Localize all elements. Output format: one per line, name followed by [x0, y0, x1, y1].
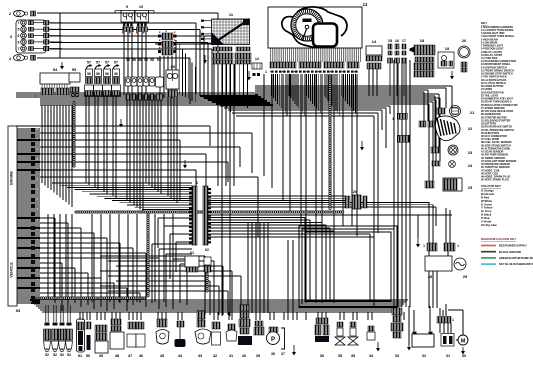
svg-text:40: 40 [242, 354, 246, 358]
svg-text:50: 50 [86, 354, 90, 358]
svg-text:52: 52 [60, 353, 64, 357]
svg-text:26: 26 [353, 189, 358, 194]
svg-text:SKY BLUE DASHBOARD SIGNAL: SKY BLUE DASHBOARD SIGNAL [499, 262, 533, 266]
svg-text:Sb Sky blue: Sb Sky blue [481, 223, 497, 227]
svg-text:5: 5 [18, 28, 20, 32]
svg-text:15: 15 [388, 39, 392, 43]
svg-text:RED POWER SUPPLY: RED POWER SUPPLY [499, 244, 527, 248]
svg-text:62: 62 [205, 248, 209, 252]
svg-text:35: 35 [338, 354, 342, 358]
svg-text:8: 8 [18, 40, 20, 44]
svg-text:56: 56 [114, 72, 118, 76]
svg-text:52: 52 [53, 353, 57, 357]
svg-text:58: 58 [150, 58, 154, 62]
svg-text:9: 9 [126, 5, 128, 9]
svg-text:58: 58 [126, 58, 130, 62]
svg-text:56: 56 [96, 72, 100, 76]
svg-text:10: 10 [139, 5, 143, 9]
svg-text:58: 58 [132, 58, 136, 62]
svg-text:33: 33 [395, 354, 399, 358]
svg-text:46: 46 [139, 354, 143, 358]
svg-text:37: 37 [281, 352, 285, 356]
svg-text:53: 53 [16, 308, 21, 313]
svg-text:1: 1 [392, 117, 394, 121]
svg-text:57: 57 [114, 61, 118, 65]
svg-text:1: 1 [452, 318, 454, 322]
svg-text:21: 21 [470, 110, 475, 115]
svg-text:57: 57 [87, 61, 91, 65]
svg-text:P: P [271, 337, 275, 343]
svg-text:55: 55 [72, 67, 77, 72]
svg-text:1: 1 [207, 55, 209, 59]
svg-text:30: 30 [462, 354, 466, 358]
svg-text:60: 60 [171, 64, 176, 69]
svg-text:58: 58 [144, 58, 148, 62]
svg-text:57: 57 [96, 61, 100, 65]
svg-text:47: 47 [128, 354, 132, 358]
svg-text:BLACK GROUND: BLACK GROUND [499, 250, 521, 254]
svg-text:50 VERT. SPARK PLUG: 50 VERT. SPARK PLUG [481, 178, 509, 182]
svg-text:52: 52 [67, 353, 71, 357]
svg-text:17: 17 [402, 39, 406, 43]
svg-text:6: 6 [18, 34, 20, 38]
svg-text:1: 1 [162, 94, 164, 98]
svg-text:38: 38 [271, 352, 275, 356]
svg-text:56: 56 [105, 72, 109, 76]
svg-text:25: 25 [468, 185, 473, 190]
svg-text:14: 14 [372, 39, 377, 44]
svg-text:COLOUR KEY: COLOUR KEY [481, 184, 501, 188]
svg-text:16: 16 [395, 39, 399, 43]
svg-text:VEHICLE: VEHICLE [10, 262, 14, 278]
svg-text:22: 22 [468, 126, 473, 131]
svg-text:M: M [461, 339, 466, 345]
svg-text:7: 7 [18, 47, 20, 51]
svg-text:12: 12 [255, 57, 259, 61]
svg-text:GREEN EARTH/FRAME SIGNAL: GREEN EARTH/FRAME SIGNAL [499, 256, 533, 260]
svg-text:7: 7 [18, 21, 20, 25]
svg-text:57: 57 [105, 61, 109, 65]
svg-text:54: 54 [53, 67, 58, 72]
svg-text:45: 45 [160, 354, 164, 358]
svg-text:13: 13 [363, 2, 368, 7]
svg-text:39: 39 [256, 354, 260, 358]
svg-text:42: 42 [213, 354, 217, 358]
svg-text:19: 19 [445, 46, 450, 51]
svg-text:24: 24 [468, 163, 473, 168]
svg-text:KEY: KEY [481, 21, 487, 25]
svg-text:59: 59 [157, 58, 161, 62]
svg-text:51: 51 [78, 354, 82, 358]
svg-text:52: 52 [45, 353, 49, 357]
svg-text:28: 28 [428, 274, 433, 279]
svg-text:48: 48 [115, 354, 119, 358]
svg-text:ENGINE: ENGINE [10, 171, 14, 185]
svg-text:1: 1 [265, 70, 267, 74]
svg-text:23: 23 [468, 150, 473, 155]
svg-text:58: 58 [138, 58, 142, 62]
svg-text:49: 49 [99, 354, 103, 358]
svg-text:20: 20 [462, 38, 467, 43]
svg-text:DIAGRAM COLOUR KEY: DIAGRAM COLOUR KEY [481, 237, 516, 241]
svg-text:43: 43 [198, 354, 202, 358]
svg-text:36: 36 [320, 354, 324, 358]
svg-text:1: 1 [423, 244, 425, 248]
svg-text:32: 32 [422, 354, 426, 358]
svg-text:31: 31 [446, 354, 450, 358]
svg-text:29: 29 [463, 274, 468, 279]
svg-text:1: 1 [457, 244, 459, 248]
svg-text:61: 61 [190, 251, 194, 255]
svg-text:56: 56 [87, 72, 91, 76]
svg-text:41: 41 [229, 354, 233, 358]
svg-text:1: 1 [34, 94, 36, 98]
svg-text:18: 18 [420, 38, 425, 43]
svg-text:35: 35 [351, 354, 355, 358]
